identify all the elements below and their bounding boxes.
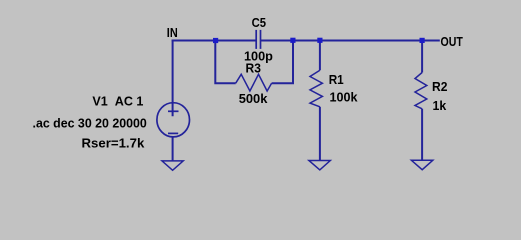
svg-text:100k: 100k bbox=[330, 89, 359, 104]
svg-text:R2: R2 bbox=[432, 79, 447, 94]
wire: V1 top branch (corner down into source circle) bbox=[172, 40, 174, 117]
wire: top rail right of C5 (right cap plate to OUT) bbox=[261, 40, 440, 42]
wire: R3 loop right branch bbox=[272, 41, 293, 84]
ground (R1) bbox=[309, 161, 330, 170]
svg-text:OUT: OUT bbox=[441, 34, 463, 49]
svg-text:IN: IN bbox=[167, 25, 178, 40]
svg-text:R1: R1 bbox=[329, 72, 344, 87]
resistor R3 bbox=[236, 74, 272, 91]
node junction dot (C5/R3 left) bbox=[213, 38, 218, 43]
svg-text:C5: C5 bbox=[252, 15, 266, 30]
wire: R2 top lead bbox=[421, 41, 423, 73]
ground (R2) bbox=[411, 160, 432, 169]
svg-text:1k: 1k bbox=[433, 98, 447, 113]
node junction dot (C5/R3 right) bbox=[290, 38, 295, 43]
node junction dot (R2 top / OUT) bbox=[420, 38, 425, 43]
svg-text:500k: 500k bbox=[239, 91, 268, 106]
node junction dot (R1 top) bbox=[317, 38, 322, 43]
capacitor C5 bbox=[256, 30, 260, 49]
voltage source V1 bbox=[157, 103, 190, 137]
wire: V1 bottom lead to ground bbox=[172, 137, 174, 161]
svg-text:V1 AC 1: V1 AC 1 bbox=[92, 94, 143, 109]
svg-text:Rser=1.7k: Rser=1.7k bbox=[82, 135, 145, 150]
wire: R3 loop left branch bbox=[215, 41, 235, 84]
resistor R2 bbox=[415, 73, 427, 109]
svg-text:R3: R3 bbox=[246, 61, 261, 76]
wire: R2 bottom lead to ground bbox=[421, 109, 423, 160]
resistor R1 bbox=[310, 70, 322, 107]
wire: R1 bottom lead to ground bbox=[319, 107, 321, 161]
ground (V1) bbox=[162, 161, 183, 170]
svg-text:.ac dec 30 20 20000: .ac dec 30 20 20000 bbox=[33, 116, 147, 131]
wire: R1 top lead bbox=[319, 41, 321, 71]
wire: top rail left of C5 (IN corner to left cap plate) bbox=[172, 40, 256, 42]
